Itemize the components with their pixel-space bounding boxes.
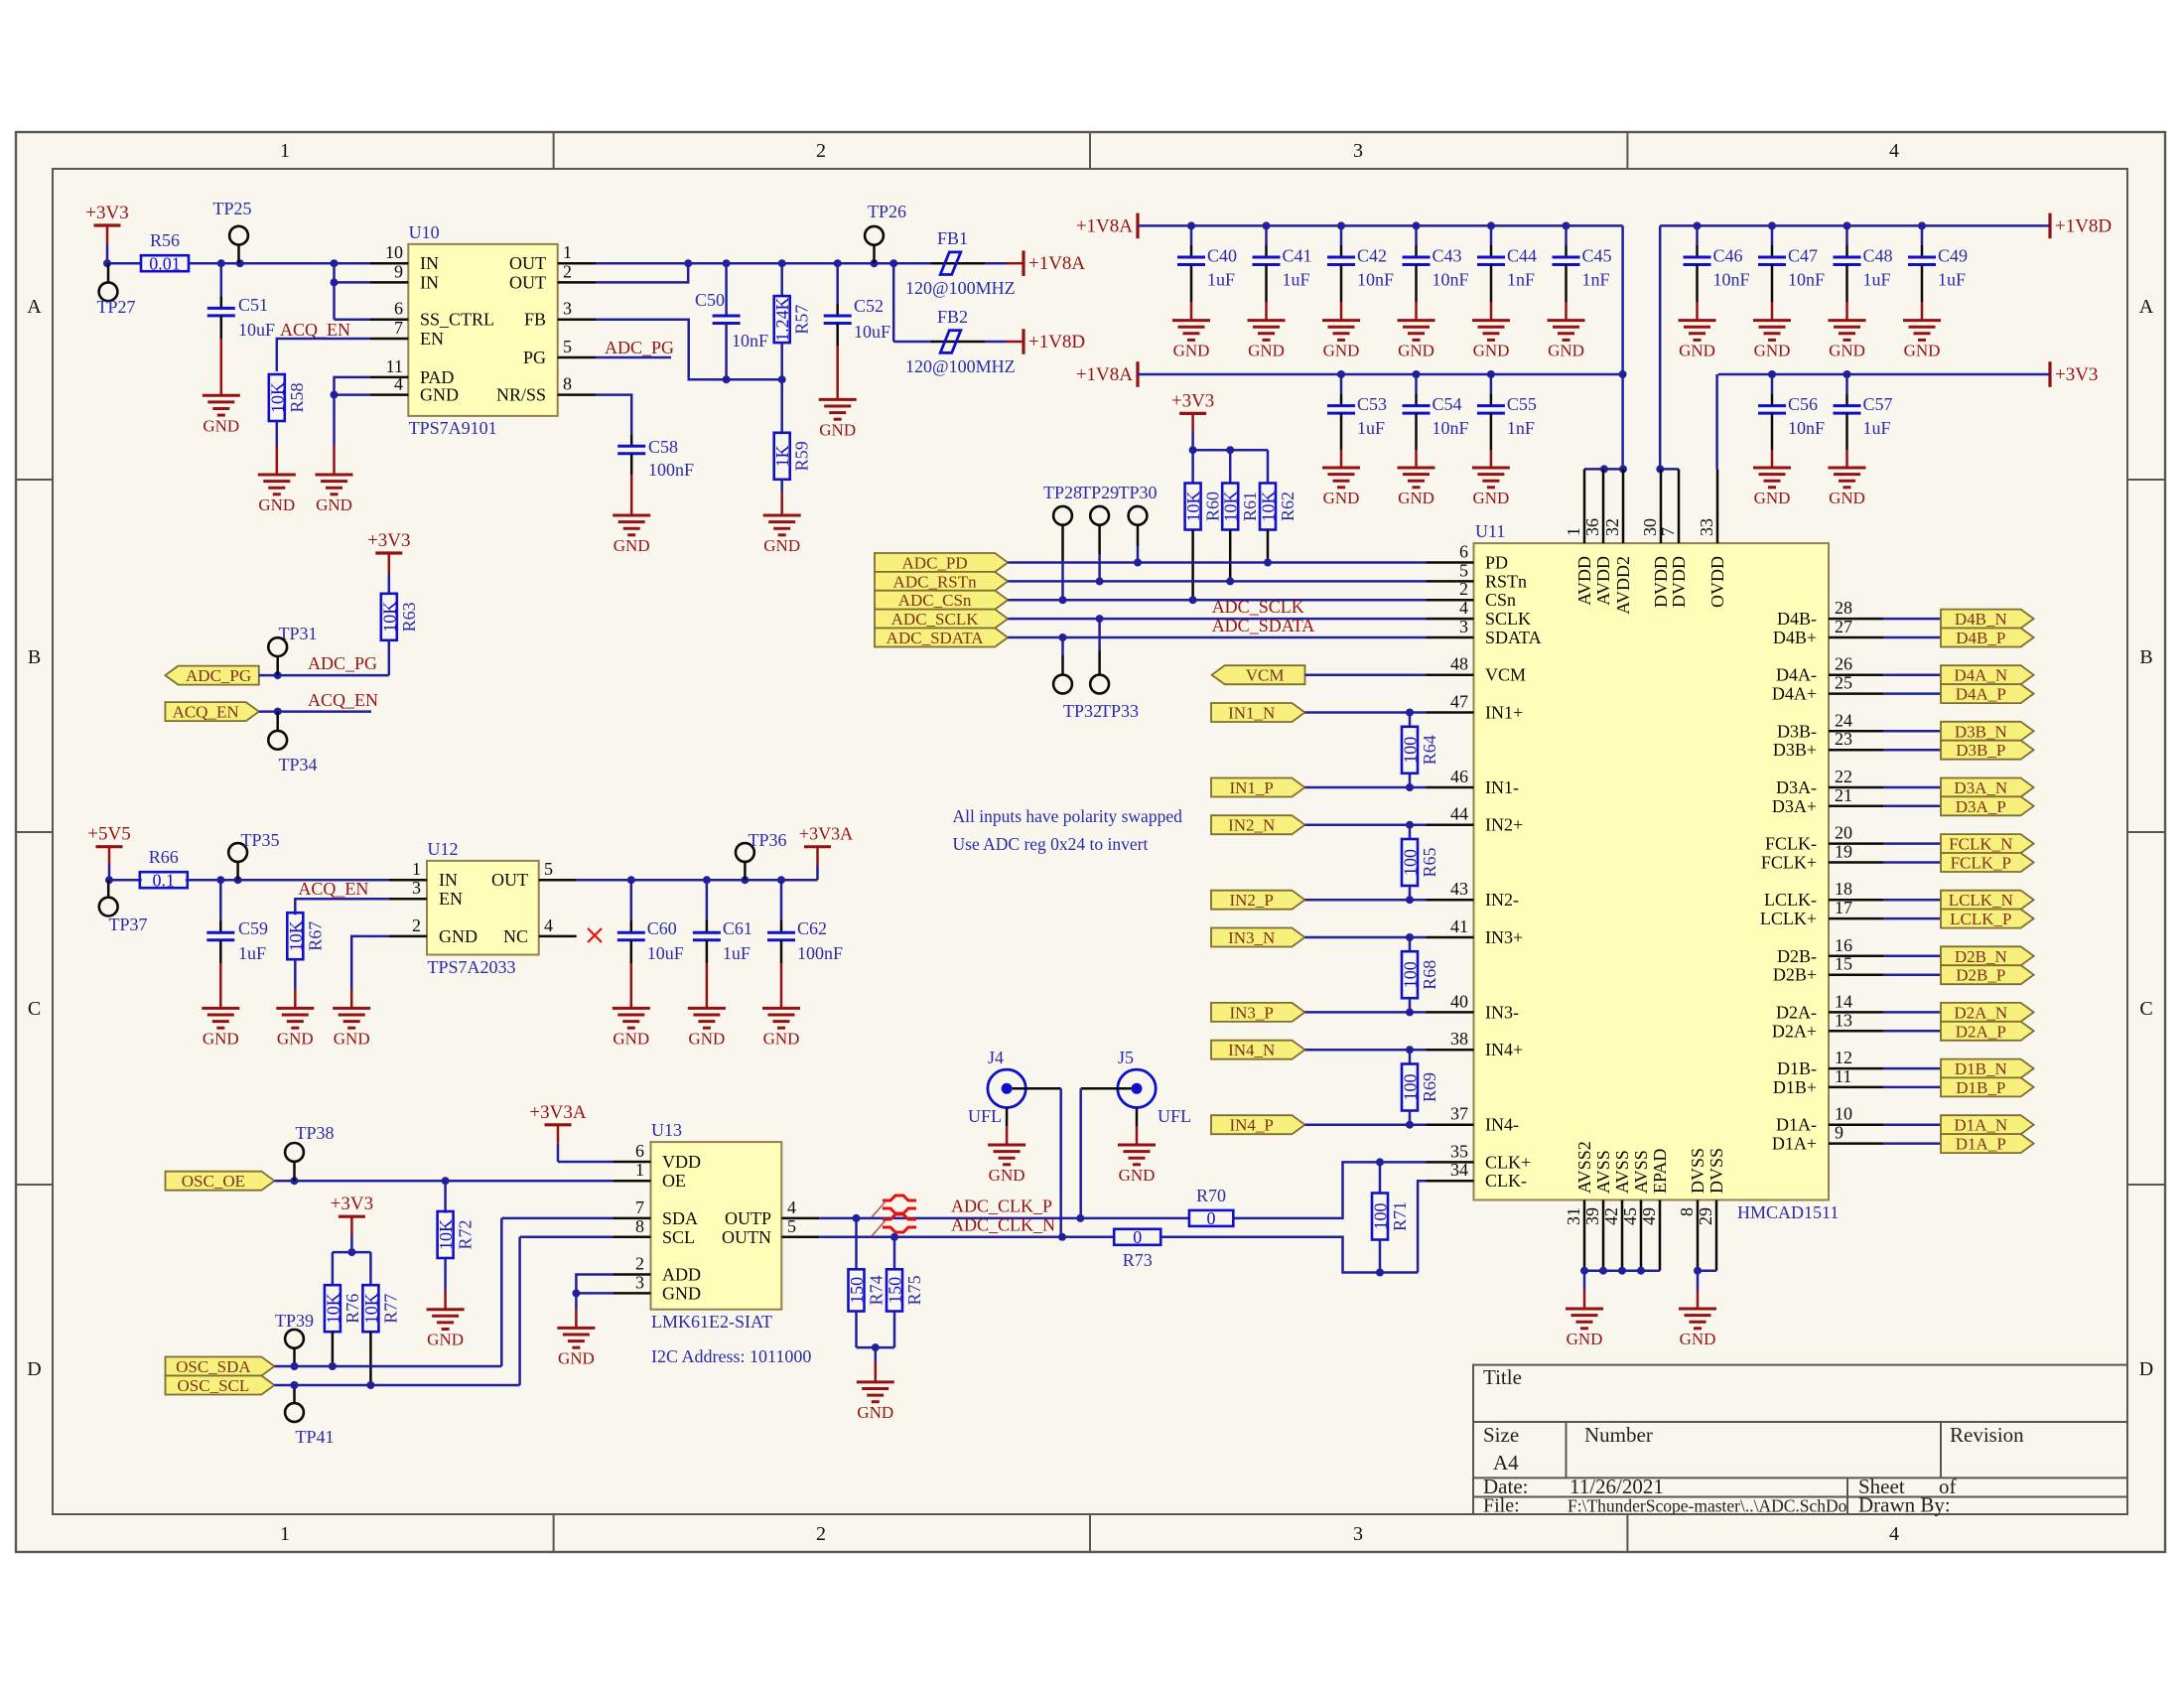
svg-text:R58: R58 [287,382,307,412]
svg-text:TP25: TP25 [212,199,251,218]
ground (R72) [427,1310,465,1349]
svg-text:UFL: UFL [1158,1106,1191,1126]
svg-text:ACQ_EN: ACQ_EN [280,320,350,340]
svg-text:33: 33 [1697,518,1716,536]
resistor R56 [141,230,189,274]
svg-text:IN: IN [439,870,458,890]
power +1V8A (FB1 out) [1024,250,1085,276]
svg-text:GND: GND [258,495,295,514]
port D3A_N [1941,778,2034,798]
svg-text:2: 2 [563,261,572,281]
ground (U12 GND) [333,1008,370,1048]
svg-text:25: 25 [1835,673,1852,693]
svg-text:GND: GND [203,1029,239,1048]
svg-text:120@100MHZ: 120@100MHZ [905,278,1016,298]
svg-text:GND: GND [688,1029,725,1048]
svg-text:ADC_RSTn: ADC_RSTn [893,572,978,591]
svg-text:GND: GND [439,926,478,946]
svg-text:35: 35 [1450,1141,1468,1161]
svg-text:AVSS: AVSS [1612,1150,1632,1194]
svg-text:7: 7 [635,1197,644,1217]
svg-text:GND: GND [1829,489,1865,507]
svg-text:R60: R60 [1203,492,1223,521]
svg-text:D1A+: D1A+ [1772,1134,1817,1154]
wire ADC_SCLK [1008,597,1426,623]
wire R76-R77 tops [333,1248,371,1286]
svg-text:D1B_N: D1B_N [1955,1059,2007,1078]
svg-text:C57: C57 [1863,394,1893,414]
U13 left pins [614,1141,702,1303]
svg-text:D2A_N: D2A_N [1954,1003,2007,1022]
U11 bottom ground pins [1564,1141,1726,1270]
svg-text:10K: 10K [361,1293,381,1324]
ground (C53) [1322,468,1360,507]
U10 right pins [496,242,596,404]
svg-text:0: 0 [1133,1227,1142,1247]
svg-text:1: 1 [412,859,421,879]
wire D3B_N [1883,730,1941,733]
svg-text:ADC_CLK_N: ADC_CLK_N [951,1214,1055,1234]
wire ACQ_EN net [259,690,378,716]
svg-text:FCLK+: FCLK+ [1761,853,1817,873]
ground (J4) [988,1145,1025,1185]
svg-text:12: 12 [1835,1048,1852,1067]
svg-text:R63: R63 [399,602,419,632]
svg-text:R73: R73 [1123,1250,1153,1270]
wire J5 tap [1081,1088,1132,1218]
wire FB network [596,320,786,384]
wire U13 GND [572,1289,613,1328]
svg-text:R70: R70 [1196,1186,1226,1205]
svg-text:4: 4 [1889,1523,1899,1545]
svg-text:C48: C48 [1863,245,1893,265]
svg-text:GND: GND [1754,342,1791,360]
svg-text:U13: U13 [651,1120,682,1140]
svg-text:10K: 10K [323,1293,342,1324]
oscillator U13 body [651,1120,782,1332]
wire D2B_P [1883,973,1941,976]
svg-text:IN2-: IN2- [1485,890,1519,910]
svg-text:GND: GND [427,1331,464,1349]
svg-text:FCLK-: FCLK- [1765,834,1817,854]
svg-text:NC: NC [503,926,528,946]
ground (R58) [258,475,296,514]
wire AVDD feed [1584,225,1627,473]
svg-text:30: 30 [1640,518,1660,536]
svg-text:C56: C56 [1788,394,1818,414]
capacitor C53 [1327,374,1387,468]
resistor R69 [1401,1050,1440,1125]
svg-text:C58: C58 [648,437,678,457]
svg-text:+3V3: +3V3 [2055,364,2098,385]
ground (C58) [613,515,650,555]
svg-text:16: 16 [1835,935,1852,955]
svg-text:DVDD: DVDD [1669,556,1689,608]
svg-text:1uF: 1uF [723,943,751,963]
wire R58 to ground [276,421,279,475]
svg-text:D2A+: D2A+ [1772,1021,1817,1041]
wire IN2_N [1304,821,1426,829]
svg-text:10nF: 10nF [1788,418,1825,438]
resistor R61 [1221,484,1261,582]
svg-text:GND: GND [1472,489,1509,507]
svg-text:3: 3 [1353,140,1363,162]
svg-text:+1V8A: +1V8A [1076,364,1133,385]
svg-text:46: 46 [1450,767,1468,786]
svg-text:10: 10 [385,242,403,262]
svg-text:VCM: VCM [1485,665,1526,685]
capacitor C60 [617,880,684,1008]
svg-text:A: A [27,296,42,318]
svg-text:GND: GND [1323,489,1360,507]
net label ACQ_EN (U12 EN) [298,879,368,899]
ground (R59) [763,515,801,555]
capacitor C48 [1834,225,1893,320]
svg-text:22: 22 [1835,767,1852,786]
svg-text:D2B_P: D2B_P [1956,966,2005,985]
svg-text:C51: C51 [238,295,268,315]
svg-text:R75: R75 [904,1275,924,1305]
port D1B_N [1941,1059,2034,1079]
ferrite bead FB2 [905,307,1023,376]
wire FB2 riser [893,263,933,342]
resistor R66 [140,847,188,891]
svg-text:+1V8D: +1V8D [2055,215,2112,236]
wire D3B_P [1883,749,1941,752]
wire PAD/GND to ground [331,377,371,475]
svg-text:ADC_CSn: ADC_CSn [898,591,972,610]
testpoint TP39 [275,1311,314,1366]
svg-text:1uF: 1uF [1938,269,1966,289]
svg-text:D3A+: D3A+ [1772,796,1817,816]
port IN4_P [1211,1115,1304,1135]
power +3V3A (U13) [529,1102,613,1162]
svg-text:GND: GND [334,1029,370,1048]
svg-text:IN4_P: IN4_P [1229,1116,1273,1135]
ground (C60) [613,1008,650,1048]
resistor R59 [772,379,812,515]
svg-text:10K: 10K [267,382,287,413]
svg-text:11/26/2021: 11/26/2021 [1570,1475,1664,1498]
wire ADC_RSTn [1008,577,1426,585]
svg-text:R65: R65 [1420,847,1439,877]
svg-text:10nF: 10nF [1713,269,1750,289]
power +1V8A rail2 flag [1076,361,1138,387]
wire OSC_SDA [274,1218,613,1370]
svg-text:0: 0 [1207,1208,1216,1228]
svg-text:OUT: OUT [509,272,546,292]
title block [1473,1365,2127,1517]
svg-text:U11: U11 [1475,521,1505,541]
svg-text:0.01: 0.01 [149,254,181,274]
capacitor C44 [1477,225,1537,320]
svg-text:TPS7A2033: TPS7A2033 [428,957,516,977]
power +1V8D (FB2 out) [1024,329,1085,354]
svg-text:C40: C40 [1207,245,1237,265]
svg-text:TP37: TP37 [108,914,147,934]
svg-text:F:\ThunderScope-master\..\ADC.: F:\ThunderScope-master\..\ADC.SchDoc [1568,1496,1854,1516]
svg-text:1nF: 1nF [1507,418,1535,438]
svg-text:D: D [27,1358,41,1380]
svg-text:IN2+: IN2+ [1485,815,1523,835]
wire OSC_OE [274,1177,613,1185]
svg-text:VCM: VCM [1246,666,1285,685]
svg-text:LCLK_N: LCLK_N [1949,891,2013,910]
svg-text:IN3_N: IN3_N [1228,928,1275,947]
svg-text:C54: C54 [1433,394,1462,414]
wire DVSS bus [1694,1267,1716,1309]
svg-text:3: 3 [563,299,572,319]
svg-text:19: 19 [1835,842,1852,862]
svg-text:C43: C43 [1433,245,1462,265]
svg-text:3: 3 [1353,1523,1363,1545]
svg-text:1: 1 [1564,527,1583,536]
power +5V5 [87,824,130,881]
svg-text:ADC_CLK_P: ADC_CLK_P [951,1196,1052,1216]
ground (C56) [1753,468,1791,507]
svg-text:120@100MHZ: 120@100MHZ [905,356,1016,376]
ground (C62) [762,1008,800,1048]
svg-text:R74: R74 [867,1275,887,1305]
svg-text:C59: C59 [238,918,268,938]
capacitor C47 [1758,225,1825,320]
wire +3V3 to R56 [103,259,141,267]
wire ADC_CSn [1008,596,1426,604]
resistor R75 [886,1237,925,1347]
svg-text:ADC_SCLK: ADC_SCLK [891,610,980,629]
svg-text:D1A-: D1A- [1776,1115,1817,1135]
ground (C52) [819,399,857,439]
resistor R65 [1401,825,1440,901]
svg-text:10K: 10K [286,920,306,951]
ground (C57) [1829,468,1866,507]
svg-text:24: 24 [1835,710,1852,730]
svg-text:GND: GND [613,1029,649,1048]
svg-text:SDA: SDA [662,1208,698,1228]
regulator U12 body [427,839,539,977]
svg-text:LCLK+: LCLK+ [1760,909,1817,928]
wire IN4_N [1304,1046,1426,1054]
svg-text:GND: GND [1173,342,1210,360]
wire ADC_PG net [259,653,389,679]
svg-text:GND: GND [558,1348,595,1367]
svg-text:20: 20 [1835,823,1852,843]
svg-text:IN2_N: IN2_N [1228,816,1275,835]
ground (U11 AVSS) [1566,1309,1603,1348]
svg-text:U10: U10 [409,222,440,242]
svg-text:U12: U12 [428,839,459,859]
port D4B_P [1941,629,2034,648]
svg-text:IN1_N: IN1_N [1228,704,1275,723]
svg-text:1uF: 1uF [1207,269,1235,289]
ground (C43) [1398,321,1435,360]
svg-text:+5V5: +5V5 [87,824,130,845]
testpoint TP34 [268,712,317,774]
svg-text:10K: 10K [1183,492,1203,522]
testpoint TP30 [1118,483,1157,563]
svg-text:OUT: OUT [509,253,546,273]
svg-text:100: 100 [1371,1203,1391,1230]
svg-text:C55: C55 [1507,394,1537,414]
svg-text:D1B-: D1B- [1777,1058,1817,1078]
capacitor C41 [1253,225,1312,320]
svg-text:18: 18 [1835,879,1852,899]
svg-text:AVDD: AVDD [1574,556,1594,606]
svg-text:2: 2 [412,915,421,935]
svg-text:GND: GND [857,1403,893,1422]
svg-text:9: 9 [1835,1123,1843,1143]
U11 right pins [1760,598,1884,1154]
svg-text:41: 41 [1450,916,1468,936]
diff pair marker (N) [872,1214,916,1236]
svg-text:EN: EN [439,889,463,909]
port D2A_N [1941,1003,2034,1023]
wire D4B_P [1883,636,1941,639]
power +3V3 rail2 flag [2050,361,2098,387]
inner frame [53,169,2127,1514]
svg-text:150: 150 [886,1277,905,1304]
testpoint TP29 [1080,483,1119,581]
port ACQ_EN [165,702,258,722]
capacitor C50 [695,263,768,379]
svg-text:3: 3 [412,878,421,898]
svg-text:GND: GND [1904,342,1941,360]
wire FCLK_N [1883,842,1941,845]
svg-text:CLK-: CLK- [1485,1171,1527,1191]
wire VCM [1305,673,1427,676]
svg-text:21: 21 [1835,785,1852,805]
port ADC_CSn [875,591,1008,611]
power +1V8D rail flag [2050,213,2112,239]
connector J4 [968,1048,1025,1126]
svg-text:10uF: 10uF [238,320,275,340]
svg-text:OE: OE [662,1171,686,1191]
port ADC_RSTn [875,572,1008,592]
capacitor C55 [1477,374,1537,468]
svg-text:100: 100 [1401,849,1421,876]
svg-text:47: 47 [1450,692,1468,712]
svg-text:R57: R57 [792,305,812,335]
svg-text:4: 4 [1889,140,1899,162]
svg-text:OSC_SDA: OSC_SDA [176,1357,251,1376]
svg-text:+3V3: +3V3 [85,203,128,223]
testpoint TP32 [1053,637,1102,721]
resistor R72 [436,1181,476,1310]
resistor R73 [1114,1227,1160,1270]
wire U12 OUT rail [577,876,818,884]
svg-text:+3V3: +3V3 [331,1194,373,1214]
svg-text:A: A [2139,296,2154,318]
svg-text:29: 29 [1696,1207,1715,1225]
wire D1A_P [1883,1142,1941,1145]
port D4A_N [1941,665,2034,685]
svg-text:C62: C62 [797,918,827,938]
diff pair marker (P) [872,1196,916,1217]
svg-text:TP29: TP29 [1080,483,1119,502]
testpoint TP37 [99,880,148,934]
wire +1V8A rail2 [1138,370,1627,378]
wire EN to R58 [277,339,370,371]
svg-text:8: 8 [563,374,572,394]
port OSC_OE [166,1172,275,1192]
svg-text:10uF: 10uF [854,322,890,342]
svg-text:TP35: TP35 [240,830,279,850]
resistor R63 [379,594,419,675]
svg-text:TP26: TP26 [868,202,906,221]
svg-text:B: B [2139,646,2152,668]
resistor R62 [1259,484,1298,563]
svg-text:R64: R64 [1420,735,1439,765]
svg-text:GND: GND [662,1283,701,1303]
svg-text:7: 7 [394,318,403,338]
svg-text:1.24K: 1.24K [772,297,792,342]
wire D3A_P [1883,805,1941,808]
port IN2_P [1211,891,1304,911]
resistor R74 [847,1218,887,1347]
svg-text:38: 38 [1450,1029,1468,1049]
port IN3_P [1211,1003,1304,1023]
wire +1V8A rail [1138,221,1623,229]
port ADC_PD [875,553,1008,573]
wire U13 ADD [576,1275,613,1294]
testpoint TP31 [268,624,317,675]
testpoint TP25 [212,199,251,263]
power +3V3 (R60-R62) [1171,390,1214,450]
port IN1_N [1211,703,1304,723]
resistor R64 [1401,713,1440,788]
ground (C42) [1322,321,1360,360]
svg-text:10uF: 10uF [647,943,684,963]
svg-text:100: 100 [1401,737,1421,764]
svg-text:R77: R77 [380,1294,400,1324]
svg-text:42: 42 [1601,1207,1621,1225]
port D2B_N [1941,946,2034,966]
svg-text:J4: J4 [988,1048,1004,1067]
svg-text:10nF: 10nF [732,331,768,351]
wire U10 OUT rail [596,259,931,267]
port FCLK_N [1941,834,2034,854]
port IN4_N [1211,1041,1304,1060]
ground (C61) [688,1008,726,1048]
svg-text:All inputs have polarity swapp: All inputs have polarity swapped [953,806,1183,826]
svg-text:AVSS: AVSS [1593,1150,1613,1194]
svg-text:D3A_P: D3A_P [1956,797,2006,816]
svg-text:GND: GND [1829,342,1865,360]
ground (C54) [1398,468,1435,507]
svg-text:28: 28 [1835,598,1852,618]
svg-text:31: 31 [1564,1207,1583,1225]
port D3B_N [1941,722,2034,742]
regulator U10 body [408,222,557,438]
svg-text:C45: C45 [1582,245,1612,265]
svg-text:10: 10 [1835,1104,1852,1124]
svg-text:5: 5 [563,337,572,356]
capacitor C54 [1403,374,1469,468]
svg-text:IN4_N: IN4_N [1228,1041,1275,1059]
resistor R77 [361,1285,401,1385]
adc U11 body [1474,521,1840,1222]
capacitor C49 [1908,225,1968,320]
svg-text:IN1+: IN1+ [1485,703,1523,723]
svg-text:HMCAD1511: HMCAD1511 [1737,1202,1839,1222]
svg-text:Drawn By:: Drawn By: [1858,1493,1951,1517]
svg-text:DVSS: DVSS [1706,1148,1726,1194]
capacitor C57 [1834,374,1893,468]
wire R56 to U10 IN [189,259,370,267]
svg-text:4: 4 [1459,598,1468,618]
capacitor C51 [207,263,275,395]
capacitor C56 [1758,374,1825,468]
